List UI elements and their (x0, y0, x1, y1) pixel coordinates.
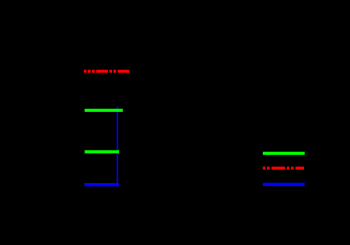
blue vertical connector (116, 107, 118, 185)
green upper segment (85, 109, 123, 112)
legend blue sample (263, 183, 305, 186)
legend green sample (263, 152, 305, 155)
blue horizontal segment (84, 183, 119, 186)
red dash-dot-dot series line (84, 70, 130, 73)
green lower segment (85, 150, 119, 153)
legend red dash-dot-dot sample (263, 167, 304, 170)
